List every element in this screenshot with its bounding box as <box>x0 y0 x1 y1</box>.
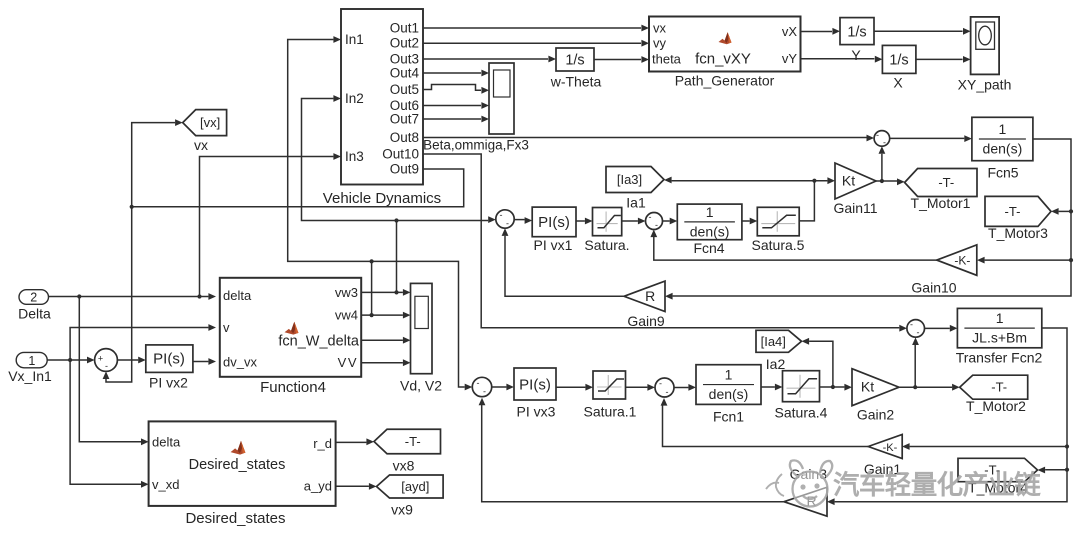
wire Out7 to scope <box>423 118 481 120</box>
junction Ia2 current <box>831 385 835 389</box>
wire vw3 net to PI vx1 sum <box>397 220 489 222</box>
svg-text:v: v <box>223 320 230 335</box>
saturation block Satura.5 <box>752 207 805 253</box>
goto tag T_Motor2 (-T-) <box>960 375 1028 414</box>
wire to Gain10 <box>985 259 1071 261</box>
svg-text:T_Motor1: T_Motor1 <box>911 195 971 211</box>
wire speed-loop sum to PI vx2 <box>117 359 138 361</box>
sum junction (before Fcn1) <box>655 378 674 397</box>
goto tag [vx] <box>183 110 227 153</box>
goto tag vx9 ([ayd]) <box>377 475 444 518</box>
svg-text:T_Motor2: T_Motor2 <box>966 398 1026 414</box>
integrator block w-Theta (1/s) <box>550 48 602 90</box>
wire r_d to tag vx8 <box>336 441 367 443</box>
junction to Gain10 <box>1069 258 1073 262</box>
svg-text:vx: vx <box>194 137 208 153</box>
transfer fcn block Transfer Fcn2 (1/(JL.s+Bm)) <box>956 308 1043 365</box>
subsystem block Vehicle Dynamics <box>323 9 441 207</box>
wire Fcn5 output to right bus <box>673 139 1071 296</box>
svg-text:Out10: Out10 <box>382 147 419 162</box>
wire Ia1 to goto tag [Ia3] <box>672 180 815 182</box>
svg-text:-T-: -T- <box>1005 204 1021 219</box>
junction to T_Motor4 <box>1065 468 1069 472</box>
svg-text:[ayd]: [ayd] <box>401 479 429 494</box>
svg-text:PI(s): PI(s) <box>538 214 570 231</box>
scope XY_path <box>958 17 1012 93</box>
svg-text:1/s: 1/s <box>889 53 908 69</box>
svg-text:Desired_states: Desired_states <box>185 510 285 527</box>
svg-text:-: - <box>649 212 652 222</box>
svg-text:Function4: Function4 <box>260 379 326 396</box>
wire Gain2 to T_Motor2 <box>899 386 952 388</box>
MATLAB function block Function4 (fcn_W_delta) <box>220 278 361 396</box>
svg-text:vx9: vx9 <box>391 502 413 518</box>
wire Satura.5 to Gain11 <box>799 181 827 221</box>
scope Beta,ommiga,Fx3 <box>423 63 529 153</box>
wire PI vx1 to Satura. <box>576 220 585 222</box>
wire Fcn4 to Satura.5 <box>742 220 750 222</box>
transfer fcn block Fcn1 (1/den(s)) <box>696 365 761 425</box>
svg-text:a_yd: a_yd <box>304 478 332 493</box>
wire Vx_In1 down to Desired_states v_xd <box>70 360 141 484</box>
wire vx down to speed-loop sum <box>106 207 132 382</box>
svg-text:Fcn5: Fcn5 <box>987 165 1018 181</box>
junction Delta down branch <box>77 294 81 298</box>
wire Out4 to scope <box>423 72 481 74</box>
from tag T_Motor4 (-T-) <box>958 458 1038 495</box>
svg-text:Vd, V2: Vd, V2 <box>400 378 442 394</box>
goto tag [Ia4] <box>756 330 802 372</box>
svg-text:+: + <box>98 354 103 364</box>
gain Gain9 (R) <box>624 281 665 329</box>
svg-text:Delta: Delta <box>18 306 51 322</box>
wire vX to integrator Y <box>801 31 833 33</box>
wire sum5 to Transfer Fcn2 <box>925 327 950 329</box>
wire Out2 to Path_Generator vy <box>423 42 641 44</box>
svg-text:Ia1: Ia1 <box>626 195 646 211</box>
sum junction (before Fcn4) <box>646 212 663 230</box>
svg-text:XY_path: XY_path <box>958 77 1012 93</box>
wire sum2 to Fcn4 <box>663 220 670 222</box>
junction on vw3 wire <box>394 290 398 294</box>
svg-text:1: 1 <box>706 204 714 220</box>
wire integrator X to XY_path <box>916 58 963 60</box>
svg-text:-K-: -K- <box>954 254 970 268</box>
wire vw4 up to junction <box>371 261 373 315</box>
svg-text:vx8: vx8 <box>393 458 415 474</box>
svg-text:-: - <box>506 219 509 229</box>
wire to T_Motor3 <box>1059 210 1071 212</box>
wire Gain2 up to sum5 <box>914 345 916 387</box>
svg-text:Out9: Out9 <box>390 162 419 177</box>
wire PI vx3 sum to PI vx3 <box>492 386 507 388</box>
wire vw3 up to junction <box>396 221 398 293</box>
wire Out6 to scope <box>423 105 481 107</box>
wire Out5 to scope <box>423 85 481 91</box>
saturation block Satura.4 <box>775 371 828 421</box>
PID controller PI vx2 <box>146 345 193 391</box>
svg-text:JL.s+Bm: JL.s+Bm <box>972 330 1027 346</box>
svg-text:vx: vx <box>653 21 667 36</box>
svg-text:vw4: vw4 <box>335 308 358 323</box>
svg-text:Kt: Kt <box>861 379 874 395</box>
svg-text:-T-: -T- <box>405 434 421 449</box>
integrator block Y (1/s) <box>840 18 874 63</box>
svg-text:Satura.: Satura. <box>584 237 629 253</box>
svg-text:vy: vy <box>653 36 667 51</box>
svg-text:fcn_vXY: fcn_vXY <box>695 51 751 68</box>
wire Delta to Function4 delta <box>48 296 208 298</box>
svg-text:Fcn4: Fcn4 <box>693 240 724 256</box>
svg-text:Desired_states: Desired_states <box>189 457 286 473</box>
svg-text:-: - <box>666 387 669 397</box>
svg-text:Path_Generator: Path_Generator <box>675 73 775 89</box>
svg-text:In3: In3 <box>345 149 364 164</box>
svg-text:Out1: Out1 <box>390 21 419 36</box>
wire to Gain1 <box>910 446 1067 448</box>
svg-text:PI vx1: PI vx1 <box>534 237 573 253</box>
saturation block Satura. <box>584 208 629 254</box>
goto tag [Ia3] <box>606 167 664 211</box>
svg-text:Y: Y <box>851 47 861 63</box>
junction on vx wire <box>130 205 134 209</box>
svg-text:2: 2 <box>30 291 37 305</box>
svg-text:Gain11: Gain11 <box>833 200 877 216</box>
svg-text:Out8: Out8 <box>390 130 419 145</box>
wire Fcn1 to Satura.4 <box>761 386 775 388</box>
svg-text:-T-: -T- <box>938 175 954 190</box>
svg-text:Kt: Kt <box>842 173 855 189</box>
wire Ia2 to goto tag [Ia4] <box>809 341 833 387</box>
svg-text:Gain9: Gain9 <box>627 313 665 329</box>
svg-text:Beta,ommiga,Fx3: Beta,ommiga,Fx3 <box>423 138 529 153</box>
svg-text:vY: vY <box>782 51 798 66</box>
svg-text:delta: delta <box>152 434 181 449</box>
wire a_yd to tag vx9 <box>336 485 369 487</box>
wire Out3 to w-Theta <box>423 58 548 60</box>
sum junction (before Transfer Fcn2) <box>907 320 925 338</box>
input port 1 (Vx_In1) <box>8 352 52 384</box>
svg-text:Fcn1: Fcn1 <box>713 409 744 425</box>
svg-text:PI(s): PI(s) <box>153 351 185 368</box>
wire sum4 to Fcn1 <box>674 387 688 389</box>
svg-text:[Ia4]: [Ia4] <box>761 334 786 349</box>
junction Ia1 current <box>812 179 816 183</box>
gain Gain2 (Kt) <box>852 369 899 423</box>
wire PI vx3 to Satura.1 <box>556 386 585 388</box>
svg-text:Vehicle Dynamics: Vehicle Dynamics <box>323 190 441 207</box>
input port 2 (Delta) <box>18 290 51 322</box>
svg-text:den(s): den(s) <box>709 386 749 402</box>
wire vw3 net to In2 <box>302 99 397 221</box>
svg-text:-K-: -K- <box>883 442 898 454</box>
wire Gain11 up to top-right sum <box>881 154 883 181</box>
svg-text:fcn_W_delta: fcn_W_delta <box>278 334 360 350</box>
wire vw4 net to PI vx3 sum <box>372 261 465 387</box>
svg-text:-: - <box>910 320 913 330</box>
junction Vx_In1 branch <box>68 358 72 362</box>
svg-text:-: - <box>659 379 662 389</box>
from tag T_Motor3 (-T-) <box>985 196 1051 241</box>
svg-text:Satura.5: Satura.5 <box>752 237 805 253</box>
svg-text:Out2: Out2 <box>390 36 419 51</box>
wire vY to integrator X <box>801 58 875 60</box>
sum junction (top right, feeds Fcn5) <box>874 130 890 148</box>
watermark logo <box>766 460 832 506</box>
svg-text:-: - <box>105 361 108 371</box>
gain Gain10 (-K-) <box>911 245 976 296</box>
svg-text:PI(s): PI(s) <box>519 377 551 394</box>
svg-text:-: - <box>500 210 503 220</box>
svg-text:Ia2: Ia2 <box>766 356 786 372</box>
wire Transfer Fcn2 output to right bus <box>835 328 1067 502</box>
transfer fcn block Fcn5 (1/den(s)) <box>972 117 1033 180</box>
sum junction (PI vx1 loop) <box>496 210 514 229</box>
svg-text:-: - <box>477 378 480 388</box>
svg-text:Gain10: Gain10 <box>911 280 956 296</box>
junction vw3 net <box>394 218 398 222</box>
wire Delta down to Desired_states delta <box>79 297 141 442</box>
MATLAB function block Desired_states <box>149 421 336 527</box>
junction vw4 net <box>370 259 374 263</box>
svg-text:-: - <box>917 328 920 338</box>
svg-text:Transfer Fcn2: Transfer Fcn2 <box>956 350 1043 366</box>
wire Gain9 to PI vx1 sum <box>505 236 624 296</box>
wire w-Theta to theta <box>594 59 641 61</box>
svg-text:-: - <box>876 130 879 140</box>
svg-text:1: 1 <box>999 121 1007 137</box>
integrator block X (1/s) <box>882 45 916 90</box>
PID controller PI vx1 <box>532 207 576 253</box>
svg-text:1/s: 1/s <box>565 53 584 69</box>
wire Satura.1 to sum4 <box>626 386 648 388</box>
wire VV to scope Vd V2 <box>361 362 403 364</box>
wire Vx_In1 up to Function4 v <box>70 328 208 361</box>
wire Satura.4 to Gain2 <box>820 386 845 388</box>
wire to T_Motor4 <box>1045 469 1067 471</box>
svg-text:delta: delta <box>223 288 252 303</box>
wire Satura. to sum2 <box>622 220 638 222</box>
wire Out9 (vx) across below Vehicle Dynamics <box>132 169 464 207</box>
PID controller PI vx3 <box>514 368 556 420</box>
sum junction (speed control loop) <box>95 349 118 372</box>
wire Out1 to Path_Generator vx <box>423 27 641 29</box>
wire PI vx2 to Function4 dv_vx <box>193 361 209 363</box>
wire W_delta to scope Vd V2 <box>361 339 403 341</box>
svg-text:-: - <box>655 220 658 230</box>
scope Vd, V2 <box>400 283 442 393</box>
svg-text:Out7: Out7 <box>390 112 419 127</box>
transfer fcn block Fcn4 (1/den(s)) <box>677 204 742 256</box>
wire Out10 to sum before Transfer Fcn2 <box>423 154 899 328</box>
wire Out8 to top-right sum <box>423 137 867 139</box>
svg-text:[vx]: [vx] <box>200 115 220 130</box>
goto tag T_Motor1 (-T-) <box>905 169 977 212</box>
svg-text:-T-: -T- <box>991 380 1007 395</box>
junction Gain11 output <box>880 179 884 183</box>
svg-text:v_xd: v_xd <box>152 477 179 492</box>
svg-text:T_Motor3: T_Motor3 <box>988 225 1048 241</box>
svg-text:1: 1 <box>28 354 35 368</box>
svg-text:PI vx3: PI vx3 <box>517 404 556 420</box>
wire Delta up to In3 <box>200 157 334 297</box>
junction Delta to In3 <box>197 294 201 298</box>
svg-text:PI vx2: PI vx2 <box>149 375 188 391</box>
svg-text:In2: In2 <box>345 91 364 106</box>
svg-text:1/s: 1/s <box>847 25 866 41</box>
svg-text:Satura.1: Satura.1 <box>584 404 637 420</box>
svg-text:Vx_In1: Vx_In1 <box>8 368 52 384</box>
junction Gain2 output <box>913 385 917 389</box>
svg-text:1: 1 <box>996 310 1004 326</box>
svg-text:vw3: vw3 <box>335 285 358 300</box>
svg-text:Out3: Out3 <box>390 52 419 67</box>
wire top-right sum to Fcn5 <box>890 137 965 139</box>
svg-text:Out5: Out5 <box>390 82 419 97</box>
wire Gain3 to PI vx3 sum <box>482 404 784 502</box>
wire vw4 net to In1 <box>288 40 372 262</box>
saturation block Satura.1 <box>584 371 637 420</box>
sum junction (PI vx3 loop) <box>472 377 491 396</box>
svg-text:theta: theta <box>652 52 682 67</box>
wire Gain11 to T_Motor1 <box>876 180 897 182</box>
wire Gain1 to sum4 <box>663 405 869 447</box>
svg-text:den(s): den(s) <box>983 141 1023 157</box>
wire integrator Y to XY_path <box>874 30 963 32</box>
junction to Gain1 <box>1065 444 1069 448</box>
svg-text:w-Theta: w-Theta <box>550 74 602 90</box>
svg-text:-: - <box>483 387 486 397</box>
svg-text:Gain2: Gain2 <box>857 407 895 423</box>
svg-text:dv_vx: dv_vx <box>223 355 257 370</box>
svg-text:1: 1 <box>725 367 733 383</box>
svg-text:[Ia3]: [Ia3] <box>617 172 642 187</box>
svg-text:Out4: Out4 <box>390 66 420 81</box>
svg-text:X: X <box>893 75 903 91</box>
svg-text:汽车轻量化产业链: 汽车轻量化产业链 <box>833 470 1041 500</box>
svg-text:den(s): den(s) <box>690 223 730 239</box>
wire vx to goto tag [vx] <box>132 123 175 207</box>
svg-text:VV: VV <box>338 355 358 370</box>
svg-text:-: - <box>883 138 886 148</box>
wire Vx_In1 to speed-loop sum <box>47 359 87 361</box>
svg-text:Satura.4: Satura.4 <box>775 405 828 421</box>
goto tag vx8 (-T-) <box>374 429 441 473</box>
svg-text:r_d: r_d <box>313 436 332 451</box>
svg-text:In1: In1 <box>345 32 364 47</box>
junction to T_Motor3 <box>1069 209 1073 213</box>
wire Gain10 to sum2 <box>654 236 937 260</box>
gain Gain3 (R) <box>784 487 827 516</box>
svg-text:R: R <box>645 288 655 304</box>
wire vw3 to scope Vd V2 <box>361 291 403 293</box>
wire vw4 to scope Vd V2 <box>361 314 403 316</box>
wire PI vx1 sum to PI vx1 <box>514 219 524 221</box>
gain Gain11 (Kt) <box>833 163 877 216</box>
svg-text:vX: vX <box>782 24 798 39</box>
junction on vw4 wire <box>370 313 374 317</box>
MATLAB function block Path_Generator (fcn_vXY) <box>649 17 801 89</box>
gain Gain1 (-K-) <box>864 434 902 477</box>
